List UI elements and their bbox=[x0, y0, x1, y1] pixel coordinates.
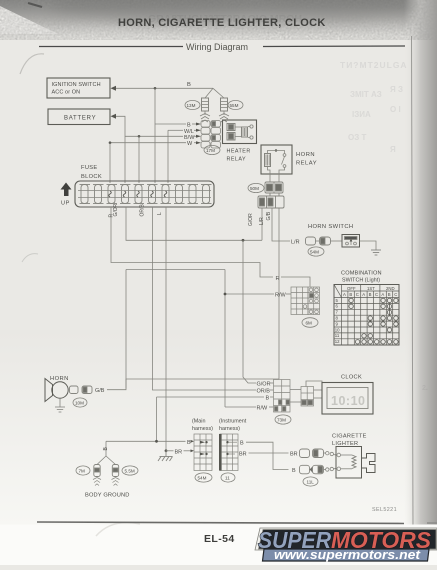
svg-text:G/OR: G/OR bbox=[257, 382, 271, 388]
svg-text:G/OR: G/OR bbox=[248, 213, 254, 226]
body ground branch bbox=[105, 441, 107, 456]
svg-text:7M: 7M bbox=[79, 469, 86, 474]
svg-text:ЗМІТ АЗ: ЗМІТ АЗ bbox=[350, 90, 382, 99]
svg-text:harness): harness) bbox=[192, 426, 213, 432]
svg-text:ІЗИА: ІЗИА bbox=[352, 110, 371, 119]
svg-text:54M: 54M bbox=[310, 250, 319, 255]
instrument harness connector 11 bbox=[219, 434, 238, 471]
svg-text:11: 11 bbox=[335, 333, 340, 338]
lower connector block bbox=[258, 193, 284, 208]
arrow into ignition box bbox=[111, 86, 117, 91]
svg-text:B: B bbox=[187, 440, 191, 446]
svg-text:A: A bbox=[362, 292, 365, 297]
svg-text:SWITCH (Light): SWITCH (Light) bbox=[342, 278, 380, 284]
svg-text:C: C bbox=[375, 292, 378, 297]
connector stack to heater relay bbox=[201, 121, 221, 149]
clock feed connector 73M bbox=[274, 380, 291, 413]
connector 5.5M bbox=[122, 466, 138, 475]
header rule with Wiring Diagram bbox=[39, 46, 183, 48]
svg-text:HORN: HORN bbox=[50, 376, 69, 382]
UP arrow bbox=[61, 183, 72, 197]
svg-text:ОЗ Т: ОЗ Т bbox=[348, 133, 366, 142]
R/W wire from middle bbox=[126, 269, 225, 271]
arrow into battery box bbox=[111, 114, 117, 119]
svg-text:C: C bbox=[356, 292, 359, 297]
svg-text:UP: UP bbox=[61, 201, 70, 207]
svg-text:BLOCK: BLOCK bbox=[81, 174, 102, 180]
svg-text:10M: 10M bbox=[75, 401, 84, 406]
svg-text:CIGARETTE: CIGARETTE bbox=[332, 434, 367, 440]
svg-text:B: B bbox=[388, 292, 391, 297]
svg-text:harness): harness) bbox=[219, 426, 240, 432]
svg-text:13M: 13M bbox=[187, 103, 196, 108]
wire battery to fuse block bbox=[116, 116, 125, 183]
node ignition/fuse junction bbox=[154, 87, 157, 90]
connector 17M bbox=[204, 145, 220, 154]
ignition switch box bbox=[47, 78, 110, 98]
svg-text:1ST: 1ST bbox=[367, 286, 375, 291]
svg-text:11: 11 bbox=[225, 476, 230, 481]
ground connector right bbox=[112, 465, 120, 486]
supermotors watermark bbox=[255, 527, 437, 562]
svg-text:OR/B: OR/B bbox=[140, 204, 146, 217]
svg-text:55M: 55M bbox=[230, 103, 239, 108]
lighter B connectors bbox=[300, 465, 310, 474]
svg-text:SEL5221: SEL5221 bbox=[372, 507, 397, 513]
svg-text:(Main: (Main bbox=[192, 419, 205, 425]
wire B to lighter bbox=[246, 442, 289, 469]
wire W/L bbox=[168, 129, 183, 131]
svg-text:B: B bbox=[240, 441, 244, 447]
svg-text:B: B bbox=[187, 123, 191, 129]
svg-text:www.supermotors.net: www.supermotors.net bbox=[274, 548, 421, 562]
svg-text:HORN, CIGARETTE LIGHTER, CLOCK: HORN, CIGARETTE LIGHTER, CLOCK bbox=[118, 17, 326, 29]
svg-text:OFF: OFF bbox=[347, 286, 356, 291]
svg-text:BR: BR bbox=[239, 452, 247, 458]
chassis ground BR bbox=[158, 451, 173, 461]
svg-text:54M: 54M bbox=[198, 476, 207, 481]
connector 11L bbox=[303, 477, 318, 486]
svg-text:FUSE: FUSE bbox=[81, 165, 98, 171]
svg-text:G/B: G/B bbox=[266, 211, 272, 220]
horn relay U bbox=[261, 145, 292, 182]
svg-text:C: C bbox=[394, 292, 397, 297]
wire B/W bbox=[125, 135, 183, 137]
svg-text:TИ?МТ2ULGA: TИ?МТ2ULGA bbox=[340, 60, 408, 70]
svg-text:G/B: G/B bbox=[95, 388, 105, 394]
main harness connector 54M bbox=[194, 434, 212, 471]
wire W bbox=[110, 142, 186, 144]
svg-text:RELAY: RELAY bbox=[296, 161, 317, 167]
wire G/B pin bbox=[278, 208, 280, 379]
svg-text:(Instrument: (Instrument bbox=[219, 419, 247, 425]
svg-text:R/W: R/W bbox=[257, 406, 269, 412]
heater relay U bbox=[223, 120, 257, 144]
svg-text:G/OR: G/OR bbox=[113, 203, 119, 216]
wire R below fuse bbox=[111, 207, 273, 277]
faint pencil arcs bbox=[20, 54, 44, 74]
svg-text:5.5M: 5.5M bbox=[125, 469, 135, 474]
lighter BR connectors bbox=[300, 449, 310, 458]
svg-text:B: B bbox=[292, 468, 296, 474]
fusible link left bbox=[200, 98, 210, 122]
svg-text:B/W: B/W bbox=[184, 135, 195, 141]
wire fork to fusible links bbox=[205, 88, 213, 98]
connector 50M block bbox=[265, 182, 283, 193]
svg-text:R/W: R/W bbox=[275, 293, 287, 299]
ground horn switch bbox=[371, 250, 381, 255]
svg-text:B: B bbox=[266, 396, 270, 402]
svg-text:HEATER: HEATER bbox=[227, 149, 251, 155]
svg-text:73M: 73M bbox=[277, 418, 286, 423]
wire G/OR below fuse bbox=[126, 207, 262, 240]
battery box bbox=[48, 109, 110, 125]
svg-text:B: B bbox=[369, 292, 372, 297]
svg-text:COMBINATION: COMBINATION bbox=[341, 271, 382, 277]
svg-text:10:10: 10:10 bbox=[331, 394, 365, 408]
wire B to clock bbox=[157, 396, 265, 398]
svg-text:IGNITION SWITCH: IGNITION SWITCH bbox=[52, 82, 101, 88]
svg-text:HORN SWITCH: HORN SWITCH bbox=[308, 224, 353, 230]
wire B branch bbox=[154, 88, 156, 183]
svg-text:50M: 50M bbox=[250, 186, 259, 191]
clock side connector bbox=[301, 387, 314, 407]
svg-text:EL-54: EL-54 bbox=[204, 533, 235, 545]
svg-text:L/R: L/R bbox=[291, 240, 300, 246]
fusible link right bbox=[219, 98, 229, 122]
svg-text:12: 12 bbox=[335, 339, 340, 344]
svg-text:11L: 11L bbox=[307, 480, 315, 485]
wire ignition B bbox=[116, 87, 213, 89]
wire BR to lighter bbox=[249, 452, 289, 454]
svg-text:W: W bbox=[187, 141, 193, 147]
wire G/OR to clock bbox=[243, 240, 256, 383]
fuse block bbox=[75, 181, 214, 207]
svg-text:10: 10 bbox=[335, 327, 340, 332]
svg-text:О І: О І bbox=[390, 105, 401, 114]
svg-text:CLOCK: CLOCK bbox=[341, 375, 362, 381]
svg-text:HORN: HORN bbox=[296, 152, 315, 158]
svg-text:BR: BR bbox=[175, 449, 183, 455]
ghost bleedthrough title bbox=[148, 13, 302, 25]
svg-text:A: A bbox=[343, 292, 346, 297]
wire OR/B below fuse bbox=[153, 207, 257, 390]
fuse capsules bbox=[80, 185, 212, 204]
cigarette lighter U bbox=[336, 447, 375, 479]
wire L/R pin bbox=[272, 208, 290, 241]
wire B net body bbox=[106, 440, 186, 442]
wire R/W to clock bbox=[225, 406, 256, 408]
svg-text:L/R: L/R bbox=[259, 217, 265, 225]
horn connectors bbox=[70, 386, 79, 394]
ground connector left bbox=[93, 465, 101, 486]
combination switch table bbox=[334, 285, 399, 346]
connector 10M bbox=[73, 398, 87, 407]
svg-text:RELAY: RELAY bbox=[227, 157, 247, 163]
svg-text:BR: BR bbox=[290, 452, 298, 458]
ghost bleedthrough right column bbox=[340, 60, 428, 392]
svg-text:17M: 17M bbox=[206, 148, 215, 153]
svg-text:A: A bbox=[381, 292, 384, 297]
svg-text:Я З: Я З bbox=[390, 85, 403, 94]
wire BR net bbox=[165, 449, 168, 452]
svg-text:2ND: 2ND bbox=[386, 286, 395, 291]
switch connector grid 6M bbox=[291, 287, 320, 315]
svg-text:B: B bbox=[187, 82, 191, 88]
svg-text:OR/B: OR/B bbox=[257, 389, 271, 395]
svg-text:2.: 2. bbox=[422, 385, 428, 392]
svg-text:B: B bbox=[349, 292, 352, 297]
svg-text:6M: 6M bbox=[306, 321, 313, 326]
connector 13M bbox=[185, 100, 200, 109]
svg-text:ACC or ON: ACC or ON bbox=[52, 90, 81, 96]
svg-text:Wiring Diagram: Wiring Diagram bbox=[186, 42, 248, 52]
node G/OR clock branch bbox=[242, 239, 245, 242]
footer rule bbox=[37, 522, 404, 524]
svg-text:BATTERY: BATTERY bbox=[64, 116, 96, 122]
connector 7M bbox=[76, 466, 90, 475]
svg-text:BODY GROUND: BODY GROUND bbox=[85, 493, 130, 499]
connector 55M bbox=[228, 100, 243, 109]
svg-text:L: L bbox=[157, 212, 163, 215]
wire L below fuse bbox=[165, 207, 167, 451]
wire G/OR pin bbox=[261, 208, 263, 240]
wire horn G/B bbox=[107, 379, 279, 390]
svg-text:Я: Я bbox=[390, 145, 396, 154]
